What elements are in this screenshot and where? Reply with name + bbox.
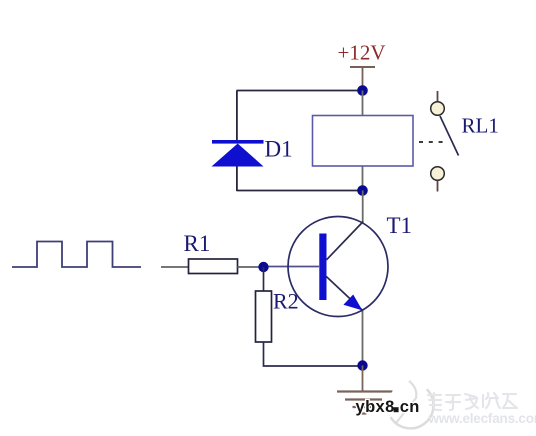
wire top horizontal <box>237 90 363 92</box>
resistor R1 <box>189 259 238 274</box>
svg-text:D1: D1 <box>265 137 293 162</box>
wire bottom horizontal <box>237 190 363 192</box>
wire R2 bottom <box>264 342 363 366</box>
relay coil lead top <box>362 91 364 117</box>
power lead wire <box>362 67 364 90</box>
watermark elecfans swoosh <box>388 381 434 429</box>
node A junction dot <box>357 85 368 96</box>
node C junction dot <box>258 262 268 272</box>
svg-text:+12V: +12V <box>338 41 386 65</box>
svg-text:www.elecfans.com: www.elecfans.com <box>428 411 536 426</box>
ground <box>337 392 393 414</box>
switch contact bottom pin <box>437 181 439 192</box>
svg-text:R2: R2 <box>273 289 299 314</box>
switch contact bottom <box>431 167 445 181</box>
switch contact top <box>431 102 445 116</box>
resistor R2 <box>256 291 272 342</box>
wire left vertical upper <box>236 91 238 142</box>
relay coil lead bottom <box>362 165 364 191</box>
svg-text:T1: T1 <box>387 213 413 238</box>
switch lever <box>440 116 459 156</box>
wire base <box>264 266 320 268</box>
wire R1 to node C <box>238 266 264 268</box>
relay coil RL1 <box>313 116 414 167</box>
node D junction dot <box>357 360 367 370</box>
wire input stub <box>161 266 188 268</box>
svg-text:RL1: RL1 <box>462 114 499 138</box>
power bar <box>350 66 375 68</box>
switch contact top pin <box>437 91 439 102</box>
wire left vertical lower <box>236 165 238 191</box>
node B junction dot <box>357 185 368 196</box>
transistor T1 <box>288 217 388 317</box>
watermark elecfans text <box>428 393 517 410</box>
wire node C to R2 <box>263 267 265 291</box>
watermark ybx8.cn period dot <box>394 407 399 412</box>
svg-text:ybx8.cn: ybx8.cn <box>356 398 420 416</box>
ground lead <box>362 366 364 392</box>
dashed actuator line <box>419 141 443 143</box>
wire collector lead <box>362 191 364 223</box>
svg-text:R1: R1 <box>184 231 211 256</box>
square wave input signal <box>12 242 141 268</box>
wire emitter lead <box>362 311 364 366</box>
diode D1 <box>212 140 264 167</box>
